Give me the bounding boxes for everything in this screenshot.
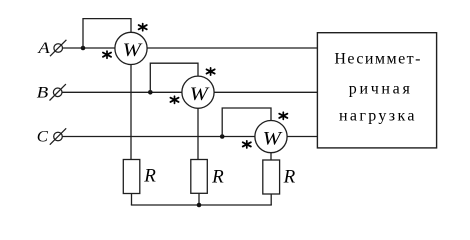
wire W2 to R2 [197,108,199,159]
resistor R3 [263,160,280,194]
wattmeter W1 [115,32,147,64]
node B junction [148,90,153,95]
svg-text:R: R [143,166,156,187]
wattmeter W3 asterisk top [279,112,287,119]
svg-text:W: W [263,128,284,149]
resistor R2 [191,160,208,194]
wire R3 to bus [270,194,272,205]
wire W1 voltage loop [83,19,131,48]
wattmeter W3 [255,121,287,153]
node A junction [81,46,86,51]
wire phase B right [214,91,317,93]
wattmeter W2 [182,76,214,108]
wire W3 to R3 [270,153,272,160]
wire phase A right [147,47,318,49]
wire phase C left [62,136,254,138]
wire phase A left [63,47,116,49]
svg-text:W: W [190,84,211,105]
load box [317,33,436,148]
wattmeter W2 asterisk bottom [170,96,178,103]
svg-text:A: A [37,40,50,57]
node C junction [220,134,225,139]
wattmeter W1 asterisk bottom [103,51,111,58]
terminal C [50,128,66,144]
wire R2 to bus [198,193,200,205]
resistor R1 [123,160,140,194]
node neutral junction [197,203,202,208]
svg-text:B: B [37,85,49,102]
svg-text:R: R [211,166,224,187]
wattmeter W2 asterisk top [207,68,215,75]
wire phase B left [62,91,182,93]
wire W1 to R1 [130,64,132,159]
svg-text:C: C [37,129,49,146]
wire R1 to bus [131,194,133,206]
wire phase C right [287,136,317,138]
terminal B [50,84,66,100]
wattmeter W1 asterisk top [139,24,147,31]
wire W3 voltage loop [222,108,271,137]
terminal A [50,40,66,56]
svg-text:Несиммет-: Несиммет- [334,51,420,68]
svg-text:W: W [123,40,144,61]
svg-text:R: R [283,166,296,187]
wattmeter W3 asterisk bottom [243,141,251,148]
wire neutral bus [131,204,272,206]
wire W2 voltage loop [150,63,198,92]
